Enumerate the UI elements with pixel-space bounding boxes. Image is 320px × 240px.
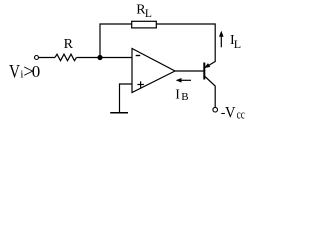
svg-text:0: 0 [32, 62, 41, 81]
op-amp minus sign [136, 55, 141, 57]
svg-text:V: V [225, 105, 236, 122]
svg-text:B: B [181, 91, 188, 103]
svg-text:R: R [64, 37, 74, 52]
op-amp plus sign [137, 84, 144, 86]
wire RL to right rail [157, 23, 216, 25]
wire plus input to ground [120, 84, 133, 112]
svg-text:L: L [234, 37, 241, 51]
svg-text:I: I [175, 87, 180, 102]
transistor Q1 emitter with arrow [206, 62, 215, 68]
input terminal Vi [35, 56, 39, 60]
resistor R [55, 54, 77, 61]
node A junction dot [97, 55, 102, 60]
op-amp U1 [132, 49, 175, 93]
resistor RL box [132, 21, 157, 28]
svg-text:cc: cc [237, 107, 245, 122]
wire input to resistor R [39, 57, 55, 59]
wire feedback vertical [100, 24, 132, 58]
ground [110, 112, 128, 114]
wire emitter to top rail [214, 23, 216, 62]
svg-text:V: V [9, 61, 20, 82]
svg-text:L: L [145, 8, 152, 20]
transistor Q1 base bar [203, 63, 205, 80]
wire resistor to op-amp [77, 57, 133, 59]
arrow IB [179, 79, 191, 81]
wire op-amp output to transistor base [175, 70, 204, 72]
transistor Q1 collector [205, 77, 215, 108]
terminal -Vcc [213, 107, 218, 112]
arrow IL [220, 34, 222, 47]
